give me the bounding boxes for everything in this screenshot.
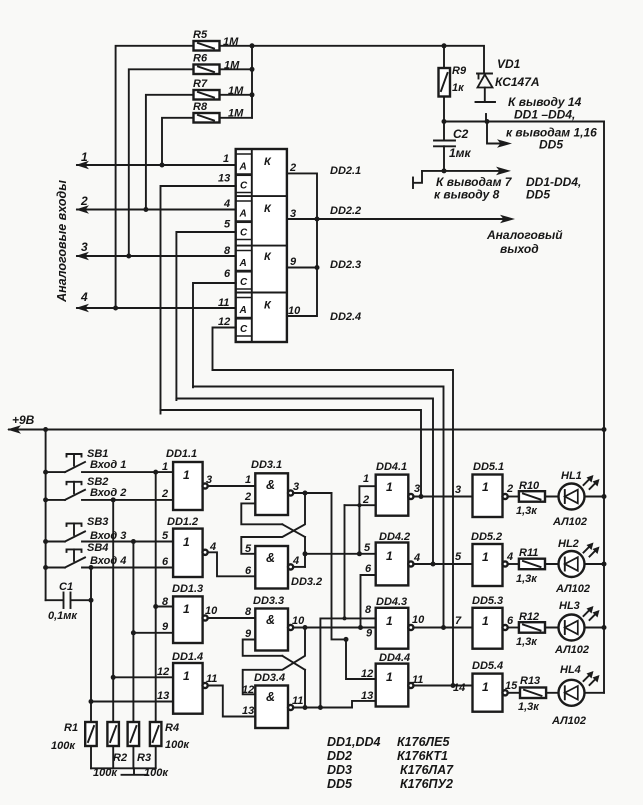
- wire DD4.1 pin2 to DD4.3 pin8: [344, 505, 346, 618]
- pin 2 label: [244, 491, 251, 503]
- wire DD3.3 out to DD4.3 pin9: [293, 627, 376, 629]
- svg-text:DD4.3: DD4.3: [376, 596, 407, 608]
- svg-text:6: 6: [245, 565, 252, 577]
- resistor R8: [193, 101, 244, 123]
- svg-text:4: 4: [292, 555, 299, 567]
- svg-text:АЛ102: АЛ102: [552, 516, 587, 528]
- svg-text:DD3: DD3: [327, 763, 352, 777]
- svg-text:A: A: [239, 209, 247, 220]
- svg-text:R9: R9: [452, 65, 467, 77]
- svg-text:13: 13: [242, 705, 254, 717]
- svg-text:DD2.2: DD2.2: [330, 205, 361, 217]
- junction bus-SB2: [43, 497, 48, 502]
- svg-text:1: 1: [482, 550, 489, 564]
- pin 8 label: [245, 606, 252, 618]
- wire DD3.1 out line: [293, 492, 332, 494]
- node K vyvodam 7/8 label: [434, 175, 581, 202]
- pin 11 label: [218, 297, 229, 309]
- junction C2-0V: [442, 168, 447, 173]
- svg-text:5: 5: [364, 542, 371, 554]
- svg-text:A: A: [239, 258, 247, 269]
- wire DD4.2 pin6 from DD3.3 out: [361, 575, 376, 628]
- pin 6 label: [245, 565, 252, 577]
- gate DD4.3: [376, 596, 414, 649]
- pin 11 label: [206, 673, 217, 685]
- resistor R1 100k: [51, 722, 97, 752]
- capacitor C2 1mk: [434, 122, 472, 171]
- pin 12 label: [242, 684, 254, 696]
- wire right supply bus: [603, 122, 605, 693]
- node bias line R9/C2/VD1: [444, 121, 604, 123]
- gate DD4.2: [376, 531, 414, 585]
- gate DD5.2: [471, 531, 508, 586]
- svg-text:1мк: 1мк: [449, 146, 472, 160]
- wire control pin 6 down-leg: [193, 283, 236, 387]
- svg-text:4: 4: [413, 552, 420, 564]
- gate DD5.4: [472, 660, 508, 712]
- junction control-DD4.4out: [451, 683, 456, 688]
- pin 3 label DD5.1: [455, 484, 461, 496]
- pin 8 label: [365, 604, 372, 616]
- svg-text:DD1.1: DD1.1: [166, 448, 197, 460]
- junction output bus pin3: [315, 217, 320, 222]
- pin 6 label: [162, 556, 169, 568]
- wire SB1 to DD1.1 pin1: [82, 471, 173, 473]
- svg-text:DD1.2: DD1.2: [167, 516, 198, 528]
- svg-text:К176ЛА7: К176ЛА7: [400, 763, 454, 777]
- junction out3 cross tap: [303, 491, 308, 496]
- wire control staircase pin5 to DD4.2 out: [176, 399, 433, 565]
- node analog inputs label: [55, 180, 69, 303]
- svg-text:1: 1: [183, 468, 190, 482]
- svg-text:A: A: [239, 305, 247, 316]
- pin 2 label: [161, 488, 168, 500]
- svg-text:C: C: [240, 324, 248, 335]
- svg-text:1: 1: [245, 474, 251, 486]
- svg-text:к выводу 8: к выводу 8: [434, 188, 500, 202]
- wire sense column input2 to R2: [112, 500, 114, 722]
- svg-text:DD3.4: DD3.4: [254, 672, 285, 684]
- svg-text:КС147А: КС147А: [495, 75, 540, 89]
- svg-text:8: 8: [162, 596, 169, 608]
- wire control staircase pin12 to DD4.4 out: [213, 370, 454, 686]
- svg-text:DD5: DD5: [327, 777, 353, 791]
- LED HL2 AL102: [545, 538, 604, 595]
- junction rail-left bus: [43, 427, 48, 432]
- svg-text:выход: выход: [500, 242, 539, 256]
- pin 1 label: [363, 473, 369, 485]
- wire DD3.3 pin9 latch loop: [243, 640, 283, 656]
- pin 14 label DD5.4: [453, 682, 465, 694]
- node k vyvodam 1,16 DD5 label: [506, 126, 597, 152]
- svg-text:1к: 1к: [452, 82, 465, 94]
- svg-text:DD3.2: DD3.2: [291, 576, 322, 588]
- resistor R9 1k: [439, 46, 467, 122]
- junction SB3-sense column: [131, 539, 136, 544]
- wire DD1.3 out to DD3.3 pin8: [208, 617, 256, 619]
- wire DD4.4 out to DD5.4: [413, 685, 472, 687]
- wire analog input 1: [76, 150, 236, 169]
- svg-text:3: 3: [293, 481, 299, 493]
- junction C1-column: [89, 598, 94, 603]
- pin 10 label: [292, 615, 305, 627]
- svg-text:Вход 3: Вход 3: [90, 530, 126, 542]
- svg-text:DD2.3: DD2.3: [330, 259, 361, 271]
- wire control staircase pin13 to DD4.1 out: [161, 410, 422, 497]
- pin 4 label: [223, 198, 230, 210]
- svg-text:1: 1: [183, 669, 190, 683]
- svg-text:АЛ102: АЛ102: [551, 715, 586, 727]
- svg-text:1: 1: [482, 680, 489, 694]
- LED HL1 arrows: [584, 475, 600, 489]
- wire branch to DD5 pins 1,16: [487, 122, 504, 144]
- svg-text:HL4: HL4: [560, 664, 581, 676]
- svg-text:DD5.1: DD5.1: [473, 461, 504, 473]
- svg-text:1: 1: [183, 602, 190, 616]
- svg-text:R8: R8: [193, 101, 208, 113]
- junction pin12 tap: [111, 675, 116, 680]
- wire sense column input4 to R1: [90, 568, 92, 723]
- svg-text:Аналоговый: Аналоговый: [486, 228, 563, 242]
- svg-text:6: 6: [162, 556, 169, 568]
- svg-text:11: 11: [218, 297, 229, 309]
- resistor R13 1,3k: [508, 675, 547, 713]
- resistor R7: [193, 78, 244, 100]
- junction pin2-pin8 column: [343, 503, 362, 620]
- svg-text:R12: R12: [519, 611, 539, 623]
- junction R8-input1: [160, 163, 165, 168]
- junction SB2-sense column: [111, 497, 116, 502]
- junction node dots: [442, 119, 490, 124]
- svg-text:4: 4: [223, 198, 230, 210]
- wire DD2 output bus pins 2,3,9,10: [287, 173, 317, 316]
- svg-text:R6: R6: [193, 53, 208, 65]
- junction out4 node: [303, 551, 308, 556]
- junction out10 cross tap: [303, 625, 308, 630]
- wire DD3.4 out to DD4.4 pin13: [293, 701, 376, 708]
- wire DD3.1 pin2 latch loop: [241, 503, 282, 524]
- svg-text:DD4.4: DD4.4: [379, 652, 410, 664]
- svg-text:1: 1: [482, 480, 489, 494]
- svg-text:8: 8: [365, 604, 372, 616]
- power +9V rail: [7, 413, 604, 434]
- svg-text:К176КТ1: К176КТ1: [397, 749, 448, 763]
- wire DD4.3 out to DD5.3: [413, 627, 472, 629]
- arrow to pins 7/8: [496, 167, 511, 176]
- pin 5 label: [224, 219, 231, 231]
- parts list DD1,DD4: [327, 735, 450, 749]
- resistor R6: [193, 53, 240, 75]
- resistor R11 1,3k: [508, 547, 546, 585]
- junction out3 leg jog: [344, 637, 349, 642]
- svg-text:R7: R7: [193, 78, 208, 90]
- svg-text:11: 11: [206, 673, 217, 685]
- wire control pin 13 down-leg: [161, 186, 236, 414]
- svg-text:3: 3: [290, 208, 296, 220]
- wire latchB cross from DD3.4 out: [282, 656, 305, 708]
- ground: [122, 768, 148, 775]
- gate DD5.3: [472, 595, 508, 649]
- wire SB3 to DD1.2 pin5: [82, 541, 173, 543]
- svg-text:DD2.4: DD2.4: [330, 311, 361, 323]
- junction HL3-bus: [602, 625, 607, 630]
- svg-text:&: &: [266, 690, 275, 704]
- junction bus-SB3: [43, 539, 48, 544]
- svg-text:12: 12: [218, 316, 230, 328]
- junction SB4-sense column: [89, 565, 94, 570]
- svg-text:1: 1: [386, 480, 393, 494]
- resistor R2 100k: [93, 722, 127, 779]
- parts list DD3: [327, 763, 454, 777]
- svg-text:9: 9: [290, 256, 297, 268]
- svg-text:0,1мк: 0,1мк: [48, 610, 78, 622]
- svg-text:C: C: [240, 277, 248, 288]
- junction pin8 tap: [153, 604, 158, 609]
- LED HL3 AL102: [545, 600, 604, 656]
- LED HL4 AL102: [546, 664, 604, 727]
- button SB1: [46, 448, 127, 472]
- svg-text:C: C: [240, 181, 248, 192]
- svg-text:5: 5: [245, 543, 252, 555]
- wire DD4.2 out to DD5.2: [413, 563, 472, 565]
- wire common 0V line with terminal: [413, 171, 503, 188]
- wire top rail to R9 and VD1: [252, 46, 484, 74]
- svg-text:3: 3: [455, 484, 461, 496]
- pin 10 label: [205, 605, 218, 617]
- svg-text:1,3к: 1,3к: [518, 701, 540, 713]
- pin 3 label: [293, 481, 299, 493]
- pin 6 label: [365, 563, 372, 575]
- wire out3 down leg: [332, 493, 376, 679]
- junction R5-input4: [113, 306, 118, 311]
- svg-text:10: 10: [205, 605, 218, 617]
- pin 4 label: [506, 551, 513, 563]
- pin 9 label: [245, 628, 252, 640]
- svg-text:13: 13: [361, 690, 373, 702]
- svg-text:DD5.2: DD5.2: [471, 531, 502, 543]
- button SB2: [46, 476, 127, 500]
- node DD2.3 label: [330, 259, 361, 271]
- svg-text:2: 2: [289, 162, 296, 174]
- pin 8 label: [224, 245, 231, 257]
- wire analog output line: [287, 218, 506, 220]
- wire to DD1.3 pin9: [133, 632, 173, 634]
- gate DD3.3: [253, 595, 293, 651]
- pin 2 label: [289, 162, 296, 174]
- svg-text:4: 4: [506, 551, 513, 563]
- wire latchA cross from DD3.1 out: [241, 493, 305, 554]
- junction R7-input2: [143, 207, 148, 212]
- arrow to DD5 pins 1,16: [497, 139, 512, 148]
- svg-text:3: 3: [81, 240, 88, 254]
- wire DD4.1 input bracket: [345, 486, 376, 554]
- svg-text:&: &: [266, 551, 275, 565]
- pin 3 label: [414, 483, 420, 495]
- svg-text:Вход 1: Вход 1: [90, 459, 126, 471]
- node K vyvodu 14 label: [508, 95, 582, 122]
- gate DD1.3: [172, 583, 208, 643]
- wire R7 left leg to input 2: [146, 95, 194, 210]
- svg-text:1: 1: [386, 670, 393, 684]
- capacitor C1 0,1mk: [46, 581, 91, 622]
- gate DD1.4: [172, 651, 208, 714]
- svg-text:1: 1: [386, 549, 393, 563]
- svg-text:A: A: [239, 162, 247, 173]
- gate DD3.2: [255, 546, 322, 589]
- node Analog output label: [486, 228, 563, 256]
- svg-text:5: 5: [224, 219, 231, 231]
- svg-text:2: 2: [80, 194, 88, 208]
- svg-text:2: 2: [161, 488, 168, 500]
- junction rail-right bus: [602, 427, 607, 432]
- wire SB2 to DD1.1 pin2: [82, 499, 173, 501]
- LED HL1 AL102: [545, 470, 604, 528]
- svg-text:9: 9: [366, 628, 373, 640]
- wire to DD1.4 pin12: [113, 676, 173, 678]
- svg-text:R10: R10: [519, 480, 540, 492]
- svg-text:1: 1: [482, 614, 489, 628]
- pin 9 label: [290, 256, 297, 268]
- svg-text:R11: R11: [519, 547, 538, 559]
- svg-text:К176ПУ2: К176ПУ2: [400, 777, 453, 791]
- junction control-DD4.2out: [431, 562, 436, 567]
- pin 5 label: [364, 542, 371, 554]
- svg-text:SB4: SB4: [87, 542, 108, 554]
- svg-text:1: 1: [162, 461, 168, 473]
- pin 15 label: [505, 680, 518, 692]
- wire analog input 2: [76, 194, 236, 214]
- svg-text:100к: 100к: [51, 740, 76, 752]
- wire DD1.2 out to DD3.2 pin6: [208, 552, 256, 576]
- svg-text:+9В: +9В: [12, 413, 35, 427]
- wire DD1.4 out to DD3.4 pin13: [208, 686, 256, 717]
- pin 12 label: [218, 316, 230, 328]
- pin 10 label: [288, 305, 301, 317]
- pin 3 label: [290, 208, 296, 220]
- svg-text:8: 8: [224, 245, 231, 257]
- svg-text:1: 1: [363, 473, 369, 485]
- junction HL1-bus: [602, 494, 607, 499]
- svg-text:6: 6: [224, 268, 231, 280]
- LED HL3 arrows: [584, 606, 600, 620]
- svg-text:&: &: [266, 613, 275, 627]
- pin 1 label: [162, 461, 168, 473]
- svg-text:DD2: DD2: [327, 749, 352, 763]
- svg-text:15: 15: [505, 680, 518, 692]
- svg-text:1: 1: [386, 614, 393, 628]
- pin 11 label: [292, 695, 303, 707]
- wire resistor commons: [91, 746, 156, 768]
- svg-text:DD4.1: DD4.1: [376, 461, 407, 473]
- LED HL2 arrows: [584, 543, 600, 557]
- svg-text:DD5: DD5: [539, 138, 563, 152]
- pin 5 label: [162, 530, 169, 542]
- junction pin13 tap: [89, 699, 94, 704]
- svg-text:DD2.1: DD2.1: [330, 165, 361, 177]
- junction out11 cross tap: [303, 705, 308, 710]
- svg-text:DD5.4: DD5.4: [472, 660, 503, 672]
- svg-text:DD3.1: DD3.1: [251, 459, 282, 471]
- pin 3 label: [206, 474, 212, 486]
- node DD2.4 label: [330, 311, 361, 323]
- gate DD1.2: [167, 516, 208, 577]
- resistor R3 100k: [128, 722, 170, 779]
- svg-text:АЛ102: АЛ102: [554, 644, 589, 656]
- svg-text:10: 10: [412, 614, 425, 626]
- svg-text:1: 1: [223, 153, 229, 165]
- pin 11 label: [412, 674, 423, 686]
- svg-text:DD5.3: DD5.3: [472, 595, 503, 607]
- junction pin6-out10: [358, 625, 363, 630]
- pin 2 label: [506, 483, 513, 495]
- svg-text:9: 9: [245, 628, 252, 640]
- svg-text:5: 5: [162, 530, 169, 542]
- wire control pin 12 down-leg: [213, 328, 236, 371]
- junction bias bus dots: [250, 43, 255, 97]
- svg-text:12: 12: [157, 666, 169, 678]
- arrow analog output: [500, 215, 515, 224]
- pin 5 label: [245, 543, 252, 555]
- wire sense column input3 to R3: [132, 542, 134, 723]
- svg-text:Вход 4: Вход 4: [90, 555, 126, 567]
- svg-text:C: C: [240, 228, 248, 239]
- svg-text:8: 8: [245, 606, 252, 618]
- svg-text:1,3к: 1,3к: [516, 505, 538, 517]
- wire to DD1.4 pin13: [91, 701, 173, 703]
- svg-text:6: 6: [365, 563, 372, 575]
- pin 4 label: [209, 541, 216, 553]
- wire latchB cross from DD3.3 out: [243, 628, 305, 695]
- svg-text:14: 14: [453, 682, 465, 694]
- svg-text:&: &: [266, 478, 275, 492]
- svg-text:HL3: HL3: [559, 600, 580, 612]
- pin 6 label: [224, 268, 231, 280]
- svg-text:R1: R1: [64, 722, 78, 734]
- gate DD4.4: [376, 652, 414, 707]
- svg-text:Вход 2: Вход 2: [90, 487, 126, 499]
- svg-text:10: 10: [288, 305, 301, 317]
- resistor R10 1,3k: [508, 480, 546, 517]
- svg-text:11: 11: [292, 695, 303, 707]
- junction control-DD4.1out: [419, 494, 424, 499]
- svg-text:DD1 –DD4,: DD1 –DD4,: [514, 108, 575, 122]
- svg-text:2: 2: [506, 483, 513, 495]
- wire analog input 3: [76, 240, 236, 260]
- resistor R4 100k: [150, 722, 190, 751]
- pin 7 label DD5.3: [455, 615, 462, 627]
- svg-text:1: 1: [183, 535, 190, 549]
- pin 13 label: [361, 690, 373, 702]
- svg-text:13: 13: [157, 690, 169, 702]
- wire R6 left leg to input 3: [129, 69, 194, 256]
- wire control staircase pin6 to DD4.3 out: [193, 387, 444, 628]
- zener diode VD1 KC147A: [476, 57, 540, 122]
- svg-text:VD1: VD1: [497, 57, 521, 71]
- svg-text:DD4.2: DD4.2: [379, 531, 410, 543]
- button SB4: [46, 542, 127, 568]
- wire analog input 4: [76, 290, 236, 312]
- wire DD4.1 out to DD5.1: [413, 496, 472, 498]
- wire DD1.1 out to DD3.1 pin1: [208, 485, 256, 487]
- junction out4-DD4.1 branch: [357, 551, 362, 556]
- wire sense column input1 to R4: [155, 472, 157, 722]
- svg-text:12: 12: [361, 668, 373, 680]
- pin 9 label: [162, 621, 169, 633]
- svg-text:DD1.3: DD1.3: [172, 583, 203, 595]
- analog switch DD2 body: [236, 149, 287, 342]
- svg-text:7: 7: [455, 615, 462, 627]
- svg-text:100к: 100к: [165, 739, 190, 751]
